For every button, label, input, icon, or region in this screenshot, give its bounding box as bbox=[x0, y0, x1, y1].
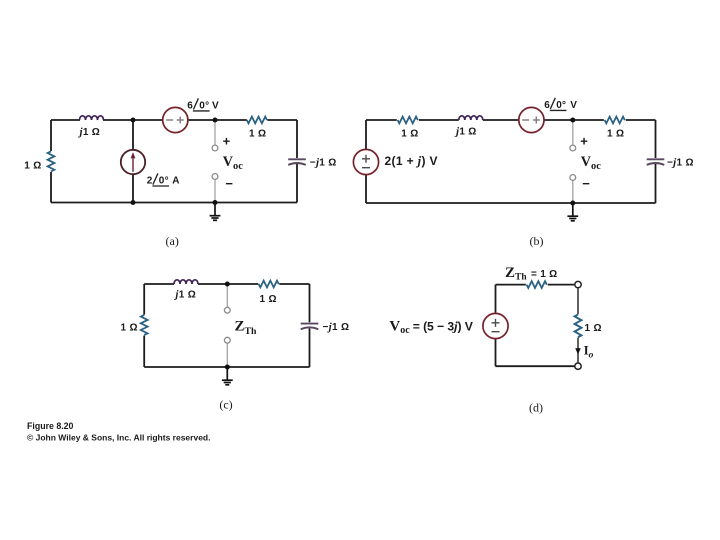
svg-text:1 Ω: 1 Ω bbox=[260, 294, 277, 305]
svg-text:(d): (d) bbox=[529, 401, 543, 415]
svg-text:+: + bbox=[223, 133, 231, 148]
svg-text:Voc: Voc bbox=[223, 154, 243, 172]
svg-text:Voc: Voc bbox=[581, 154, 601, 172]
svg-text:−j1 Ω: −j1 Ω bbox=[667, 157, 694, 169]
svg-text:1 Ω: 1 Ω bbox=[24, 160, 41, 171]
svg-text:6: 6 bbox=[187, 101, 193, 112]
svg-text:V: V bbox=[212, 101, 219, 112]
svg-text:2(1 + j) V: 2(1 + j) V bbox=[385, 154, 438, 168]
svg-text:Figure 8.20: Figure 8.20 bbox=[27, 421, 74, 431]
svg-text:ZTh: ZTh bbox=[505, 265, 527, 283]
svg-text:Voc: Voc bbox=[389, 318, 410, 336]
svg-text:ZTh: ZTh bbox=[235, 318, 258, 337]
svg-text:V: V bbox=[570, 100, 577, 111]
svg-text:(c): (c) bbox=[219, 398, 232, 412]
svg-text:j1 Ω: j1 Ω bbox=[78, 126, 101, 138]
svg-text:−j1 Ω: −j1 Ω bbox=[310, 157, 337, 169]
svg-text:1 Ω: 1 Ω bbox=[249, 129, 266, 140]
svg-text:j1 Ω: j1 Ω bbox=[454, 126, 477, 138]
svg-text:A: A bbox=[172, 176, 180, 187]
svg-text:−: − bbox=[582, 176, 590, 191]
svg-text:−j1 Ω: −j1 Ω bbox=[323, 321, 350, 333]
svg-text:= 1 Ω: = 1 Ω bbox=[531, 269, 557, 280]
svg-text:−: − bbox=[225, 176, 233, 191]
svg-text:+: + bbox=[580, 133, 588, 148]
svg-text:1 Ω: 1 Ω bbox=[121, 323, 138, 334]
svg-text:= (5 − 3j) V: = (5 − 3j) V bbox=[413, 318, 474, 333]
svg-text:j1 Ω: j1 Ω bbox=[173, 289, 196, 301]
svg-text:1 Ω: 1 Ω bbox=[585, 323, 602, 334]
svg-text:6: 6 bbox=[544, 100, 550, 111]
svg-text:Io: Io bbox=[584, 343, 594, 361]
svg-text:© John Wiley & Sons, Inc. All: © John Wiley & Sons, Inc. All rights res… bbox=[27, 432, 210, 442]
svg-text:(a): (a) bbox=[166, 234, 179, 248]
svg-text:0°: 0° bbox=[556, 100, 566, 111]
svg-text:1 Ω: 1 Ω bbox=[607, 129, 624, 140]
svg-text:0°: 0° bbox=[199, 101, 209, 112]
svg-text:(b): (b) bbox=[530, 234, 544, 248]
svg-text:0°: 0° bbox=[159, 176, 169, 187]
svg-text:1 Ω: 1 Ω bbox=[401, 129, 418, 140]
svg-text:2: 2 bbox=[147, 176, 153, 187]
